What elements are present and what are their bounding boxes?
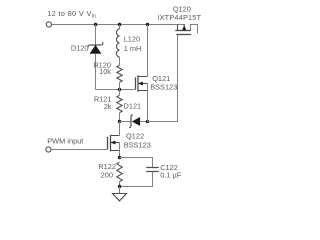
svg-text:2k: 2k [104, 102, 112, 111]
wire: ground stub [119, 187, 121, 194]
node: Q122 source / R122 / C122 junction [118, 156, 121, 159]
wire: C122 bottom lead [120, 172, 153, 187]
node: Q121 source / Q120 gate junction [146, 120, 149, 123]
wire: R120 bottom lead [119, 82, 121, 89]
wire: gate node horizontal (D120/R120 node to Q121 gate) [96, 89, 136, 91]
node: ground junction [118, 185, 121, 188]
svg-text:L120: L120 [124, 35, 140, 44]
svg-text:Q122: Q122 [126, 131, 144, 140]
ground symbol [113, 194, 127, 201]
svg-text:BSS123: BSS123 [124, 141, 151, 150]
wire: source node to C122 [120, 158, 153, 168]
wire: L120-R120 link [119, 57, 121, 65]
node: rail junction at Q121 drain [146, 23, 149, 26]
zener diode D121 [129, 115, 140, 128]
node: rail junction at L120 [118, 23, 121, 26]
inductor L120 [116, 29, 119, 57]
svg-text:12 to 80 V VIn: 12 to 80 V VIn [47, 9, 96, 20]
svg-text:BSS123: BSS123 [150, 83, 177, 92]
wire: top supply rail [51, 24, 185, 26]
transistor Q121 (BSS123) [136, 25, 148, 122]
wire: PWM input to Q122 gate [51, 149, 108, 151]
resistor R120 [117, 65, 122, 82]
wire: node to Q120 gate riser [148, 35, 178, 122]
svg-text:D121: D121 [124, 102, 142, 111]
svg-text:IXTP44P15T: IXTP44P15T [157, 13, 201, 22]
svg-text:1 mH: 1 mH [124, 44, 142, 53]
wire: R121 bottom lead [119, 113, 121, 122]
svg-text:PWM input: PWM input [47, 137, 83, 146]
terminal PWM input circle [46, 147, 51, 152]
zener diode D120 [88, 42, 103, 53]
resistor R122 [117, 162, 122, 181]
wire: L120 top lead [119, 25, 121, 29]
node: R121/D121/Q122-drain junction [118, 120, 121, 123]
wire: D121 anode lead [120, 121, 132, 123]
svg-text:10k: 10k [99, 67, 111, 76]
resistor R121 [117, 95, 122, 112]
svg-text:Q121: Q121 [152, 74, 170, 83]
wire: D120 top lead [95, 25, 97, 46]
transistor Q120 (IXTP44P15T, P-channel) [175, 25, 197, 35]
terminal Vin input circle [46, 22, 51, 27]
wire: D120 bottom lead [95, 53, 97, 89]
wire: D121 cathode lead [140, 121, 148, 123]
svg-text:200: 200 [101, 170, 113, 179]
node: R120/R121/D120 junction [118, 88, 121, 91]
svg-text:D120: D120 [71, 44, 89, 53]
capacitor C122 [146, 168, 159, 172]
transistor Q122 (BSS123) [108, 122, 120, 158]
wire: R121 top lead [119, 90, 121, 96]
node: rail junction at D120 [94, 23, 97, 26]
svg-text:0.1 µF: 0.1 µF [160, 171, 182, 180]
wire: R122 bottom lead [119, 182, 121, 187]
